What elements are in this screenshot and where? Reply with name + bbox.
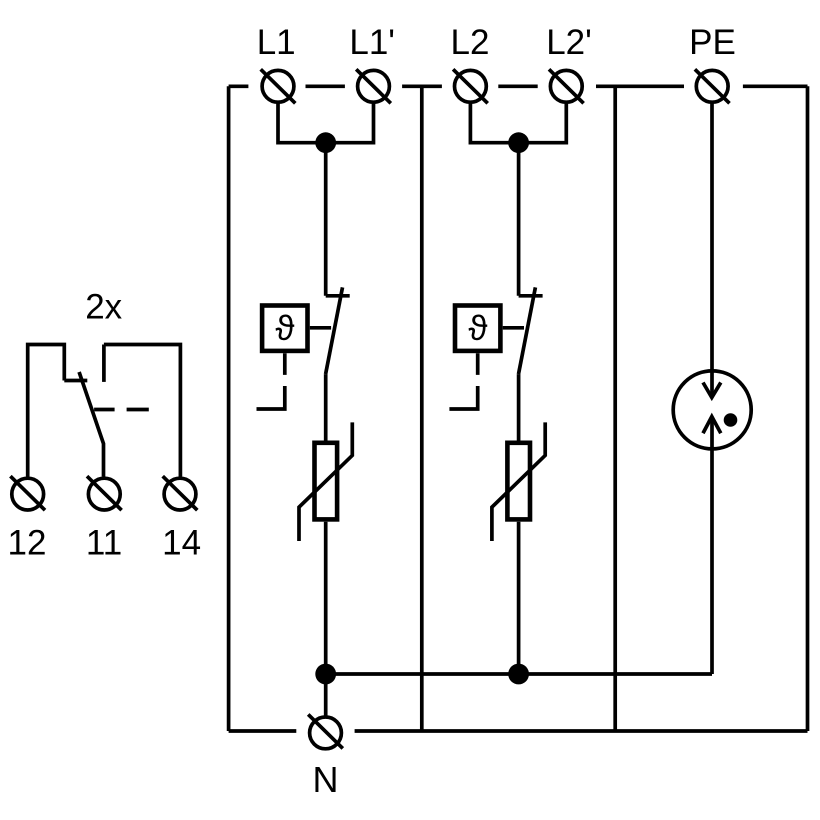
junction node branch 2 bottom: [508, 664, 529, 685]
thermal switch F2 blade: [519, 287, 536, 374]
thermal release element theta box 2: [455, 306, 500, 351]
terminal PE: [695, 69, 730, 103]
wire: L2/L2' stubs joining at node: [470, 86, 566, 142]
svg-text:ϑ: ϑ: [275, 309, 294, 348]
wire: top link PE to right corner: [743, 84, 808, 88]
varistor R1 body: [315, 443, 338, 520]
wire: top dash across divider node: [402, 84, 442, 88]
svg-text:L2: L2: [451, 23, 490, 62]
wire: PE terminal down to spark gap F3: [710, 86, 714, 397]
svg-text:11: 11: [86, 523, 122, 562]
terminal N: [308, 714, 343, 748]
spark gap F3 upper arrowhead: [703, 383, 721, 398]
wire: frame bottom edge (gap at terminal N): [229, 729, 808, 733]
spark gap F3 lower arrowhead: [703, 417, 721, 434]
dashed link: thermal element 1 to varistor: [257, 353, 285, 409]
wire: bottom bus node1 to PE column: [326, 672, 712, 676]
terminal L1': [356, 69, 391, 103]
wire: divider 1: [420, 86, 424, 731]
dashed link: thermal element 2 to varistor: [449, 353, 477, 409]
svg-text:N: N: [313, 759, 339, 800]
thermal switch F2 fixed contact tick: [519, 294, 543, 298]
wire: top dash between L2 and L2': [498, 84, 537, 88]
varistor R2 body: [507, 443, 530, 520]
varistor R2 diagonal stroke: [492, 422, 545, 541]
terminal L2: [453, 69, 488, 103]
wire: frame left edge: [227, 86, 231, 731]
terminal L1: [261, 69, 296, 103]
wire: branch 1 down to switch contact: [324, 143, 328, 296]
thermal release element theta box 1: [262, 306, 307, 351]
wire: frame right edge: [806, 86, 810, 731]
wire: L1/L1' stubs joining at node: [278, 86, 374, 142]
spark gap F3 circle: [673, 371, 751, 449]
junction node branch 1 bottom: [315, 664, 336, 685]
dashed actuator link: [94, 408, 149, 412]
wire: divider 2: [613, 86, 617, 731]
wire: connector theta box 2 to blade: [503, 326, 524, 330]
changeover blade from terminal 11: [79, 372, 103, 477]
wire: terminal 12 riser and NC hook: [28, 345, 65, 477]
wire: top dash from left corner: [229, 84, 249, 88]
wire: connector theta box 1 to blade: [310, 326, 331, 330]
wire: blade to varistor R2: [517, 374, 521, 440]
junction node branch 1 top: [315, 132, 336, 153]
wire: NO hook to terminal 14: [104, 345, 180, 477]
remote signalling changeover contact (2x): [28, 345, 181, 477]
thermal switch F1 blade: [326, 287, 343, 374]
wire: branch 2 down to switch contact: [517, 143, 521, 296]
svg-text:12: 12: [8, 523, 47, 562]
spark gap F3 upper electrode wire: [710, 369, 714, 398]
svg-text:ϑ: ϑ: [468, 309, 487, 348]
junction node branch 2 top: [508, 132, 529, 153]
svg-text:PE: PE: [689, 23, 736, 62]
wire: varistor R1 to bottom node: [324, 522, 328, 674]
svg-text:14: 14: [162, 523, 201, 562]
spark gap F3 trigger dot: [724, 413, 738, 427]
terminal 11: [87, 476, 122, 510]
NC fixed contact tick: [64, 379, 87, 383]
wire: top dash between L1 and L1': [306, 84, 345, 88]
wire: varistor R2 to bottom node: [517, 522, 521, 674]
thermal switch F1 fixed contact tick: [326, 294, 350, 298]
wire: spark gap F3 lower electrode to bottom bus: [710, 417, 714, 674]
wire: top link divider to PE: [596, 84, 684, 88]
svg-text:2x: 2x: [85, 287, 122, 326]
NO fixed contact stub: [102, 345, 106, 382]
svg-text:L2': L2': [546, 23, 592, 62]
svg-text:L1': L1': [349, 23, 395, 62]
wire: blade to varistor R1: [324, 374, 328, 440]
terminal 14: [163, 476, 198, 510]
svg-text:L1: L1: [257, 23, 296, 62]
terminal L2': [549, 69, 584, 103]
terminal 12: [10, 476, 45, 510]
wire: node1 down to terminal N: [324, 674, 328, 733]
varistor R1 diagonal stroke: [299, 422, 352, 541]
